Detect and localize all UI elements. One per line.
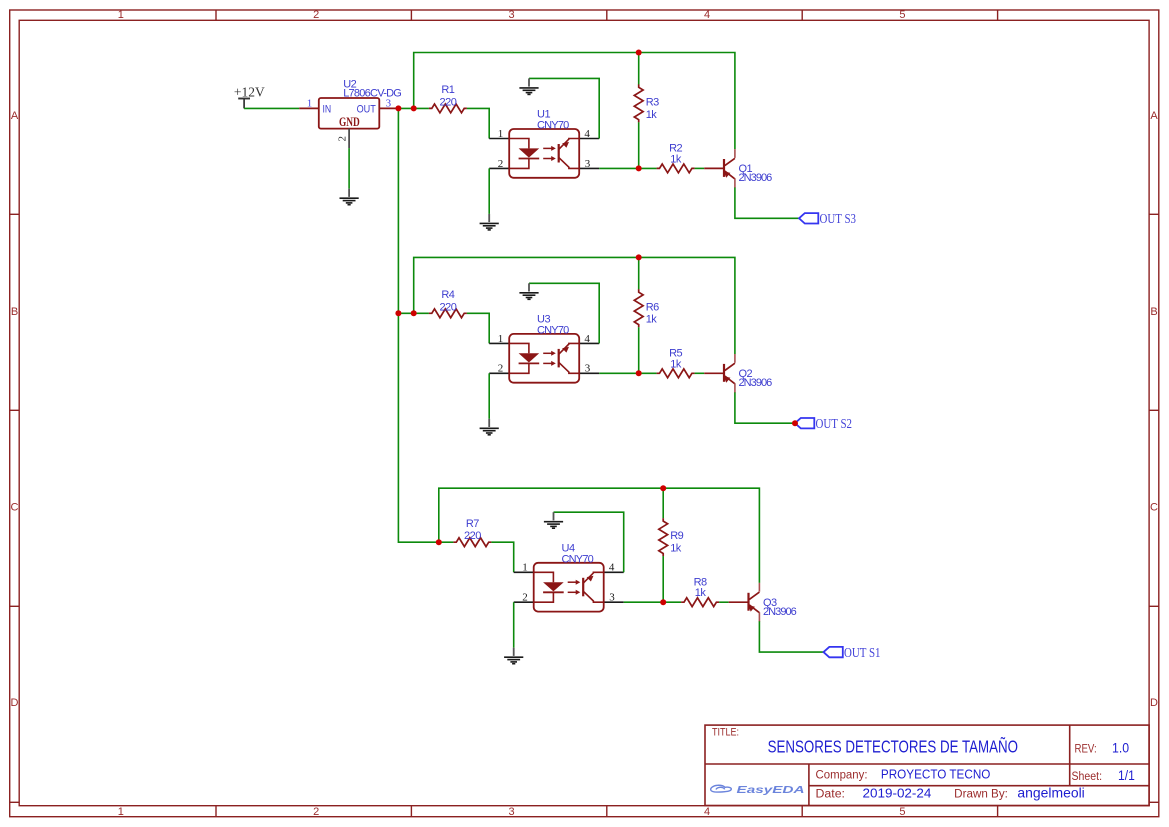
- resistor R3 1k: [634, 84, 643, 122]
- svg-text:1: 1: [307, 97, 313, 109]
- svg-text:4: 4: [609, 562, 615, 574]
- svg-text:REV:: REV:: [1075, 743, 1097, 755]
- svg-text:CNY70: CNY70: [537, 324, 569, 336]
- optocoupler U3 CNY70: [489, 333, 599, 383]
- svg-text:1: 1: [522, 562, 528, 574]
- svg-text:angelmeoli: angelmeoli: [1017, 785, 1084, 801]
- ground (U1 pin 4): [519, 78, 538, 94]
- svg-text:B: B: [1150, 306, 1157, 318]
- wire: [638, 122, 640, 168]
- transistor Q3 2N3906: [729, 583, 760, 622]
- wire: [662, 556, 664, 602]
- svg-text:4: 4: [584, 128, 590, 140]
- wire: [398, 312, 429, 314]
- svg-text:TITLE:: TITLE:: [712, 727, 739, 739]
- wire: [491, 542, 513, 572]
- svg-text:2: 2: [313, 806, 319, 818]
- svg-text:3: 3: [585, 158, 591, 170]
- resistor R9 1k: [659, 518, 668, 556]
- svg-text:OUT S2: OUT S2: [816, 417, 853, 432]
- svg-text:1k: 1k: [670, 153, 682, 165]
- voltage regulator U2 L7806CV-DG: [299, 98, 399, 148]
- svg-text:1: 1: [498, 128, 504, 140]
- junction bus / stage3 rail riser: [436, 539, 442, 545]
- wire: [439, 541, 454, 543]
- svg-text:5: 5: [899, 806, 905, 818]
- ground (U4 pin 4): [544, 512, 563, 528]
- svg-text:2019-02-24: 2019-02-24: [863, 787, 932, 801]
- svg-text:SENSORES DETECTORES DE TAMAÑO: SENSORES DETECTORES DE TAMAÑO: [768, 735, 1018, 756]
- svg-text:220: 220: [464, 530, 481, 542]
- svg-text:5: 5: [899, 9, 905, 21]
- junction bus / stage1 rail riser: [411, 105, 417, 111]
- svg-text:R7: R7: [466, 518, 479, 530]
- net flag OUT S3: [799, 213, 818, 223]
- wire: [735, 392, 795, 423]
- svg-text:1k: 1k: [646, 314, 658, 326]
- svg-text:R4: R4: [441, 289, 454, 301]
- svg-text:1: 1: [498, 333, 504, 345]
- svg-text:C: C: [11, 502, 19, 514]
- svg-text:OUT S3: OUT S3: [820, 212, 857, 227]
- svg-text:R1: R1: [441, 84, 454, 96]
- svg-text:CNY70: CNY70: [562, 553, 594, 565]
- wire: [735, 188, 799, 219]
- svg-text:1k: 1k: [695, 587, 707, 599]
- junction stage2 rail riser: [411, 310, 417, 316]
- transistor Q1 2N3906: [704, 149, 735, 188]
- svg-text:2: 2: [498, 158, 504, 170]
- wire: [439, 488, 760, 583]
- svg-text:OUT S1: OUT S1: [844, 646, 881, 661]
- svg-text:A: A: [1150, 110, 1158, 122]
- wire: [348, 148, 350, 189]
- wire: [695, 372, 705, 374]
- ground (U3 pin 4): [519, 283, 538, 299]
- junction bus / stage2 feed: [395, 310, 401, 316]
- svg-text:4: 4: [704, 806, 710, 818]
- EasyEDA logo: [711, 785, 732, 792]
- svg-text:1k: 1k: [646, 109, 658, 121]
- resistor R8 1k: [681, 598, 719, 607]
- svg-text:Date:: Date:: [816, 789, 846, 801]
- svg-text:2: 2: [337, 136, 349, 142]
- svg-text:Drawn By:: Drawn By:: [954, 789, 1008, 801]
- power flag +12V: [234, 85, 265, 109]
- wire: [488, 168, 490, 214]
- wire: +6V bus from U2 output down to stage 3: [398, 108, 438, 542]
- svg-text:CNY70: CNY70: [537, 120, 569, 132]
- svg-text:3: 3: [609, 592, 615, 604]
- svg-text:2: 2: [522, 592, 528, 604]
- svg-text:R6: R6: [646, 301, 659, 313]
- wire: [719, 601, 729, 603]
- wire: [529, 283, 599, 343]
- svg-text:C: C: [1150, 502, 1158, 514]
- svg-text:R9: R9: [670, 530, 683, 542]
- ground (U1 pin 2): [480, 214, 499, 230]
- svg-text:3: 3: [585, 363, 591, 375]
- net flag OUT S2: [795, 418, 814, 428]
- resistor R2 1k: [657, 164, 695, 173]
- svg-text:1.0: 1.0: [1112, 740, 1129, 755]
- optocoupler U4 CNY70: [514, 562, 624, 612]
- wire: [414, 257, 735, 354]
- ground (U3 pin 2): [480, 419, 499, 435]
- wire: [529, 78, 599, 138]
- svg-text:EasyEDA: EasyEDA: [737, 784, 805, 796]
- wire: [638, 53, 640, 85]
- junction R3/R2: [636, 165, 642, 171]
- svg-text:1: 1: [118, 806, 124, 818]
- svg-text:3: 3: [509, 9, 515, 21]
- svg-text:4: 4: [584, 333, 590, 345]
- wire: [599, 372, 656, 374]
- wire: [414, 53, 735, 150]
- svg-text:D: D: [11, 697, 19, 709]
- svg-text:1/1: 1/1: [1118, 768, 1135, 783]
- svg-text:1: 1: [118, 9, 124, 21]
- svg-text:2N3906: 2N3906: [763, 606, 797, 618]
- junction at OUT S2 flag: [792, 420, 798, 426]
- wire: [759, 621, 823, 652]
- wire: [662, 488, 664, 518]
- svg-text:A: A: [11, 110, 19, 122]
- wire: [244, 107, 299, 109]
- svg-text:1k: 1k: [670, 543, 682, 555]
- wire: [638, 327, 640, 373]
- svg-text:1k: 1k: [670, 358, 682, 370]
- wire: [467, 108, 489, 138]
- svg-text:IN: IN: [323, 103, 332, 115]
- svg-text:PROYECTO TECNO: PROYECTO TECNO: [881, 767, 991, 782]
- svg-text:4: 4: [704, 9, 710, 21]
- svg-text:2N3906: 2N3906: [739, 377, 773, 389]
- resistor R5 1k: [657, 369, 695, 378]
- svg-text:GND: GND: [339, 115, 360, 129]
- junction rail/R6: [636, 254, 642, 260]
- svg-text:2: 2: [313, 9, 319, 21]
- wire: [398, 107, 429, 109]
- transistor Q2 2N3906: [704, 354, 735, 393]
- wire: [599, 167, 656, 169]
- resistor R7 220: [453, 538, 491, 547]
- junction rail/R3: [636, 50, 642, 56]
- svg-text:OUT: OUT: [357, 103, 376, 115]
- svg-text:B: B: [11, 306, 18, 318]
- junction rail/R9: [660, 485, 666, 491]
- junction R6/R5: [636, 370, 642, 376]
- svg-text:+12V: +12V: [234, 85, 265, 100]
- resistor R4 220: [429, 309, 467, 318]
- wire: [638, 257, 640, 289]
- wire: [695, 167, 705, 169]
- svg-text:2: 2: [498, 363, 504, 375]
- junction R9/R8: [660, 599, 666, 605]
- wire: [624, 601, 681, 603]
- svg-text:R3: R3: [646, 96, 659, 108]
- svg-text:Company:: Company:: [816, 770, 868, 782]
- svg-text:Sheet:: Sheet:: [1072, 771, 1103, 783]
- svg-text:D: D: [1150, 697, 1158, 709]
- wire: [554, 512, 624, 572]
- junction U2 out / bus: [395, 105, 401, 111]
- optocoupler U1 CNY70: [489, 128, 599, 178]
- resistor R6 1k: [634, 289, 643, 327]
- resistor R1 220: [429, 104, 467, 113]
- svg-text:220: 220: [439, 301, 456, 313]
- ground (U4 pin 2): [504, 648, 523, 664]
- wire: [467, 313, 489, 343]
- wire: [513, 602, 515, 648]
- svg-text:L7806CV-DG: L7806CV-DG: [343, 87, 401, 99]
- wire: [488, 373, 490, 419]
- svg-text:3: 3: [509, 806, 515, 818]
- ground (U2 pin 2): [340, 189, 359, 205]
- net flag OUT S1: [824, 647, 843, 657]
- svg-text:220: 220: [439, 96, 456, 108]
- svg-text:2N3906: 2N3906: [739, 172, 773, 184]
